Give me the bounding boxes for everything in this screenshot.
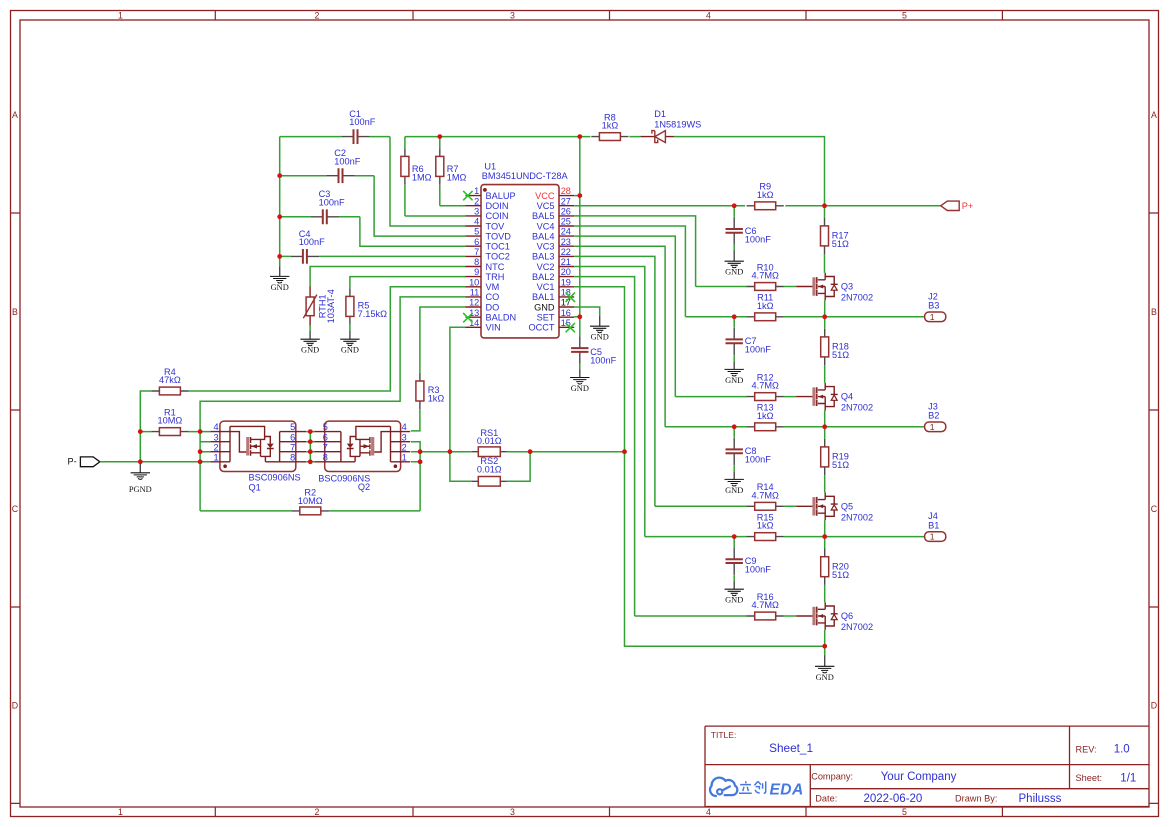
resistor R3 xyxy=(416,373,424,410)
svg-text:2: 2 xyxy=(213,442,218,452)
svg-text:OCCT: OCCT xyxy=(528,323,554,333)
wire: VCC top rail xyxy=(405,137,825,206)
junction xyxy=(198,459,203,464)
svg-text:7: 7 xyxy=(323,442,328,452)
svg-text:5: 5 xyxy=(474,227,479,237)
svg-text:1: 1 xyxy=(118,807,123,817)
svg-text:47kΩ: 47kΩ xyxy=(159,375,181,385)
svg-text:P+: P+ xyxy=(962,201,974,211)
svg-text:2: 2 xyxy=(315,807,320,817)
resistor R5 xyxy=(346,288,354,324)
svg-text:2N7002: 2N7002 xyxy=(841,622,873,632)
svg-text:VC3: VC3 xyxy=(537,242,555,252)
svg-text:6: 6 xyxy=(290,432,295,442)
svg-text:1: 1 xyxy=(213,452,218,462)
transistor Q1 BSC0906NS xyxy=(210,421,306,471)
shunt resistor RS2 xyxy=(472,477,507,487)
resistor R10 xyxy=(747,283,784,291)
svg-text:8: 8 xyxy=(474,257,479,267)
wire: pin 24 fanout xyxy=(574,236,675,397)
svg-text:51Ω: 51Ω xyxy=(832,570,849,580)
svg-text:13: 13 xyxy=(469,308,479,318)
junction xyxy=(198,449,203,454)
wire: Q3 source to J2 row xyxy=(824,300,826,316)
transistor Q5 2N7002 xyxy=(796,493,838,521)
svg-text:4.7MΩ: 4.7MΩ xyxy=(752,381,779,391)
svg-text:PGND: PGND xyxy=(129,485,152,494)
svg-text:3: 3 xyxy=(510,807,515,817)
svg-text:A: A xyxy=(12,110,18,120)
wire: pin 21 fanout xyxy=(574,267,645,537)
svg-text:Q3: Q3 xyxy=(841,282,853,292)
resistor R7 xyxy=(436,137,444,206)
junction xyxy=(138,429,143,434)
svg-text:8: 8 xyxy=(323,452,328,462)
svg-text:7: 7 xyxy=(290,442,295,452)
svg-text:TITLE:: TITLE: xyxy=(711,730,737,740)
junction xyxy=(528,449,533,454)
ground PGND xyxy=(129,462,152,494)
svg-text:C: C xyxy=(1151,504,1158,514)
resistor R20 xyxy=(821,537,829,603)
wire: VM pin 10 to R4 xyxy=(189,287,466,391)
capacitor C5 xyxy=(571,317,588,370)
wire: TRH pin 9 to R5 xyxy=(350,277,466,289)
svg-text:1kΩ: 1kΩ xyxy=(428,394,445,404)
svg-text:1kΩ: 1kΩ xyxy=(757,301,774,311)
junction xyxy=(732,534,737,539)
svg-text:26: 26 xyxy=(561,207,571,217)
svg-text:D1: D1 xyxy=(654,109,666,119)
svg-text:27: 27 xyxy=(561,196,571,206)
svg-text:100nF: 100nF xyxy=(349,117,375,127)
wire: gate node vertical xyxy=(199,432,201,511)
wire: VC1 pin 19 fanout xyxy=(574,287,825,646)
wire: Q6 source to GND row xyxy=(824,630,826,646)
svg-text:GND: GND xyxy=(725,486,743,495)
wire: pin 20 fanout xyxy=(574,277,634,616)
no-connect pin 13 xyxy=(463,313,472,322)
junction xyxy=(308,429,313,434)
svg-text:5: 5 xyxy=(290,422,295,432)
resistor R1 xyxy=(140,428,200,436)
svg-text:19: 19 xyxy=(561,277,571,287)
svg-text:VC4: VC4 xyxy=(537,221,555,231)
wire: row J3 xyxy=(665,426,925,428)
svg-text:1: 1 xyxy=(402,452,407,462)
svg-text:3: 3 xyxy=(474,207,479,217)
wire: gate row Q4 xyxy=(675,396,796,398)
svg-text:SET: SET xyxy=(537,313,555,323)
svg-text:51Ω: 51Ω xyxy=(832,350,849,360)
ground GND bottom xyxy=(815,646,834,682)
junction xyxy=(198,429,203,434)
resistor R16 xyxy=(747,612,784,620)
resistor R15 xyxy=(747,533,784,541)
svg-text:A: A xyxy=(1151,110,1157,120)
junction xyxy=(622,449,627,454)
svg-text:TOVD: TOVD xyxy=(486,231,512,241)
svg-text:VM: VM xyxy=(486,282,500,292)
svg-text:1MΩ: 1MΩ xyxy=(447,172,467,182)
svg-text:20: 20 xyxy=(561,267,571,277)
svg-text:22: 22 xyxy=(561,247,571,257)
wire: node to Q1 pins xyxy=(200,432,210,452)
wire: P- row xyxy=(100,461,210,463)
Q1 pin numbers xyxy=(213,422,295,462)
svg-text:2N7002: 2N7002 xyxy=(841,403,873,413)
Q2 pin numbers xyxy=(323,422,407,462)
svg-text:EDA: EDA xyxy=(770,781,804,798)
svg-text:Q5: Q5 xyxy=(841,501,853,511)
svg-text:BAL1: BAL1 xyxy=(532,292,554,302)
EasyEDA logo xyxy=(710,778,804,799)
wire: CO pin 11 to gate node xyxy=(200,297,465,432)
transistor Q4 2N7002 xyxy=(796,383,838,411)
svg-text:COIN: COIN xyxy=(486,211,509,221)
svg-text:1: 1 xyxy=(474,186,479,196)
svg-text:1kΩ: 1kΩ xyxy=(757,521,774,531)
svg-text:TRH: TRH xyxy=(486,272,505,282)
svg-text:25: 25 xyxy=(561,217,571,227)
svg-text:2: 2 xyxy=(402,442,407,452)
resistor R19 xyxy=(821,427,829,493)
svg-text:100nF: 100nF xyxy=(745,565,771,575)
svg-text:24: 24 xyxy=(561,227,571,237)
shunt resistor RS1 xyxy=(472,447,507,457)
ground GND under C5 xyxy=(570,370,589,394)
svg-text:C: C xyxy=(12,504,19,514)
ground GND under C6 xyxy=(725,251,744,277)
U1 pin numbers right xyxy=(561,186,571,328)
wire: Q2 source bus xyxy=(411,442,420,511)
wire: drain bus between Q1 and Q2 xyxy=(306,432,314,462)
svg-text:100nF: 100nF xyxy=(745,234,771,244)
capacitor C6 xyxy=(726,206,743,251)
junction xyxy=(732,203,737,208)
svg-text:REV:: REV: xyxy=(1076,744,1097,754)
svg-text:10MΩ: 10MΩ xyxy=(298,496,323,506)
svg-text:4: 4 xyxy=(706,11,711,21)
wire: gate row Q5 xyxy=(655,505,796,507)
wire: C3 to TOC1 pin 6 xyxy=(360,217,466,246)
capacitor C4 xyxy=(280,249,466,264)
wire: R3 to Q2 gate xyxy=(411,409,420,431)
wire: VIN pin 14 down xyxy=(450,327,466,451)
wire: NTC pin 8 to RTH1 xyxy=(310,267,465,287)
resistor R13 xyxy=(747,423,784,431)
wire: gate row Q3 xyxy=(696,286,797,288)
svg-text:BAL5: BAL5 xyxy=(532,211,554,221)
svg-text:DOIN: DOIN xyxy=(486,201,509,211)
no-connect pin 1 xyxy=(463,191,472,200)
junction xyxy=(277,254,282,259)
svg-text:Your Company: Your Company xyxy=(881,771,957,783)
wire: pin 26 fanout xyxy=(574,216,695,287)
svg-text:1kΩ: 1kΩ xyxy=(602,121,619,131)
wire: R6 to COIN pin 3 xyxy=(405,215,466,217)
resistor R12 xyxy=(747,393,784,401)
no-connect pin 18 xyxy=(566,293,575,302)
wire: VCC vertical xyxy=(579,137,581,317)
junction xyxy=(308,459,313,464)
svg-text:BAL2: BAL2 xyxy=(532,272,554,282)
svg-text:1: 1 xyxy=(118,11,123,21)
wire: pin 23 fanout xyxy=(574,246,665,427)
capacitor C9 xyxy=(726,537,743,582)
U1 pin names right xyxy=(528,191,554,333)
capacitor C7 xyxy=(726,317,743,362)
wire: C2 to TOVD pin 5 xyxy=(374,176,465,236)
svg-text:Q4: Q4 xyxy=(841,392,853,402)
junction xyxy=(822,203,827,208)
svg-text:4: 4 xyxy=(402,422,407,432)
svg-text:2: 2 xyxy=(315,11,320,21)
svg-text:0.01Ω: 0.01Ω xyxy=(477,464,502,474)
svg-text:4: 4 xyxy=(706,807,711,817)
wire: R7 to DOIN pin 2 xyxy=(440,205,466,207)
svg-text:5: 5 xyxy=(323,422,328,432)
svg-text:5: 5 xyxy=(902,11,907,21)
svg-text:2N7002: 2N7002 xyxy=(841,293,873,303)
svg-text:2: 2 xyxy=(474,196,479,206)
svg-text:GND: GND xyxy=(534,302,555,312)
svg-text:BALUP: BALUP xyxy=(486,191,516,201)
ground GND pin 17 xyxy=(590,316,609,342)
svg-text:B2: B2 xyxy=(928,411,939,421)
svg-text:4.7MΩ: 4.7MΩ xyxy=(752,490,779,500)
svg-text:BAL3: BAL3 xyxy=(532,252,554,262)
svg-text:VIN: VIN xyxy=(486,323,501,333)
U1 pin names left xyxy=(486,191,517,333)
resistor R8 xyxy=(591,133,628,141)
svg-text:51Ω: 51Ω xyxy=(832,239,849,249)
junction xyxy=(277,214,282,219)
svg-text:9: 9 xyxy=(474,267,479,277)
junction xyxy=(577,193,582,198)
resistor R4 xyxy=(151,387,188,395)
wire: row J4 xyxy=(645,536,925,538)
junction xyxy=(577,134,582,139)
svg-text:GND: GND xyxy=(271,283,289,292)
svg-text:21: 21 xyxy=(561,257,571,267)
wire: gate row Q6 xyxy=(635,615,797,617)
svg-text:GND: GND xyxy=(725,376,743,385)
capacitor C2 xyxy=(280,168,374,183)
diode D1 1N5819WS xyxy=(641,131,674,143)
svg-text:6: 6 xyxy=(323,432,328,442)
svg-text:100nF: 100nF xyxy=(745,345,771,355)
ground GND under RTH1 xyxy=(300,326,319,355)
resistor R11 xyxy=(747,313,784,321)
svg-text:Company:: Company: xyxy=(811,772,853,782)
svg-text:51Ω: 51Ω xyxy=(832,460,849,470)
svg-text:GND: GND xyxy=(341,346,359,355)
thermistor RTH1 xyxy=(303,287,317,326)
svg-text:VC2: VC2 xyxy=(537,262,555,272)
svg-text:Sheet:: Sheet: xyxy=(1076,773,1103,783)
wire: R4 left to P- rail xyxy=(140,391,151,462)
svg-text:2022-06-20: 2022-06-20 xyxy=(864,793,923,805)
wire: Q4 source to J3 row xyxy=(824,411,826,427)
svg-text:GND: GND xyxy=(816,673,834,682)
svg-text:4: 4 xyxy=(213,422,218,432)
junction xyxy=(277,173,282,178)
svg-text:GND: GND xyxy=(591,333,609,342)
svg-text:B: B xyxy=(12,307,18,317)
junction xyxy=(822,644,827,649)
svg-text:2N7002: 2N7002 xyxy=(841,512,873,522)
svg-text:VC5: VC5 xyxy=(537,201,555,211)
connector J2 xyxy=(925,312,946,322)
svg-text:BAL4: BAL4 xyxy=(532,231,554,241)
svg-text:1/1: 1/1 xyxy=(1120,772,1136,784)
svg-text:10: 10 xyxy=(469,277,479,287)
svg-text:Date:: Date: xyxy=(815,793,837,803)
svg-text:B1: B1 xyxy=(928,521,939,531)
svg-text:DO: DO xyxy=(486,302,500,312)
ground GND under C7 xyxy=(725,362,744,385)
power flag P- xyxy=(68,457,100,467)
svg-text:8: 8 xyxy=(290,452,295,462)
transistor Q3 2N7002 xyxy=(796,273,838,301)
connector J4 xyxy=(925,532,946,542)
junction xyxy=(577,314,582,319)
svg-text:D: D xyxy=(12,701,18,711)
wire: RS row xyxy=(420,451,624,453)
junction xyxy=(448,449,453,454)
capacitor C8 xyxy=(726,427,743,472)
svg-text:TOV: TOV xyxy=(486,221,506,231)
ground GND under C8 xyxy=(725,472,744,495)
wire: Q5 source to J4 row xyxy=(824,520,826,536)
ground GND under C9 xyxy=(725,582,744,605)
svg-text:Q6: Q6 xyxy=(841,611,853,621)
svg-text:TOC2: TOC2 xyxy=(486,252,510,262)
svg-text:1N5819WS: 1N5819WS xyxy=(654,119,701,129)
svg-text:GND: GND xyxy=(725,268,743,277)
svg-text:BM3451UNDC-T28A: BM3451UNDC-T28A xyxy=(482,171,569,181)
svg-text:Philusss: Philusss xyxy=(1019,793,1062,805)
wire: DO pin 12 to R3 xyxy=(420,307,466,373)
wire: VC5 to P+ row xyxy=(574,205,941,207)
junction xyxy=(138,459,143,464)
wire: SET pin 16 stub xyxy=(574,316,580,318)
junction xyxy=(308,439,313,444)
wire: row J2 xyxy=(685,316,924,318)
svg-text:100nF: 100nF xyxy=(334,156,360,166)
wire: C1 to TOV pin 4 xyxy=(390,137,466,226)
svg-text:3: 3 xyxy=(402,432,407,442)
title block xyxy=(705,726,1149,806)
svg-text:100nF: 100nF xyxy=(745,455,771,465)
svg-text:P-: P- xyxy=(68,457,77,467)
svg-text:5: 5 xyxy=(902,807,907,817)
svg-text:3: 3 xyxy=(510,11,515,21)
junction xyxy=(822,314,827,319)
connector J3 xyxy=(925,422,946,432)
svg-text:7: 7 xyxy=(474,247,479,257)
svg-text:11: 11 xyxy=(470,288,480,298)
svg-text:Drawn By:: Drawn By: xyxy=(955,793,997,803)
junction xyxy=(418,459,423,464)
svg-text:10MΩ: 10MΩ xyxy=(158,416,183,426)
svg-text:VCC: VCC xyxy=(535,191,555,201)
svg-text:0.01Ω: 0.01Ω xyxy=(477,436,502,446)
svg-text:BSC0906NS: BSC0906NS xyxy=(249,473,301,483)
junction xyxy=(822,424,827,429)
svg-text:1: 1 xyxy=(930,312,935,322)
power flag P+ xyxy=(941,201,974,211)
svg-text:3: 3 xyxy=(213,432,218,442)
U1 pin numbers left xyxy=(469,186,479,328)
capacitor C1 xyxy=(280,129,390,144)
wire: pin 22 fanout xyxy=(574,256,655,506)
svg-text:GND: GND xyxy=(301,346,319,355)
svg-text:BALDN: BALDN xyxy=(486,313,517,323)
junction xyxy=(418,449,423,454)
svg-text:NTC: NTC xyxy=(486,262,505,272)
svg-text:103AT-4: 103AT-4 xyxy=(326,289,336,323)
ground GND under R5 xyxy=(340,325,359,355)
junction xyxy=(732,424,737,429)
junction xyxy=(437,134,442,139)
svg-text:1kΩ: 1kΩ xyxy=(757,190,774,200)
resistor R18 xyxy=(821,317,829,383)
svg-text:B: B xyxy=(1151,307,1157,317)
resistor R14 xyxy=(747,502,784,510)
svg-text:VC1: VC1 xyxy=(537,282,555,292)
svg-text:U1: U1 xyxy=(484,162,496,172)
svg-text:28: 28 xyxy=(561,186,571,196)
wire: GND pin 17 xyxy=(574,307,600,316)
svg-text:1kΩ: 1kΩ xyxy=(757,411,774,421)
svg-text:4.7MΩ: 4.7MΩ xyxy=(752,271,779,281)
wire: pin 28 stub xyxy=(574,195,580,197)
ground GND under ladder xyxy=(270,256,289,292)
capacitor C3 xyxy=(280,209,360,224)
svg-text:Q1: Q1 xyxy=(249,483,261,493)
svg-text:100nF: 100nF xyxy=(590,355,616,365)
svg-text:100nF: 100nF xyxy=(319,197,345,207)
wire: RS2 parallel branch xyxy=(450,452,530,482)
svg-text:D: D xyxy=(1151,701,1157,711)
svg-text:B3: B3 xyxy=(928,301,939,311)
svg-text:CO: CO xyxy=(486,292,500,302)
svg-text:23: 23 xyxy=(561,237,571,247)
svg-text:TOC1: TOC1 xyxy=(486,242,510,252)
no-connect pin 15 xyxy=(566,323,575,332)
op-amp U1 BM3451UNDC-T28A xyxy=(466,185,575,338)
svg-text:Sheet_1: Sheet_1 xyxy=(769,741,813,755)
junction xyxy=(822,534,827,539)
svg-text:6: 6 xyxy=(474,237,479,247)
resistor R2 xyxy=(200,507,420,515)
svg-text:100nF: 100nF xyxy=(299,237,325,247)
svg-text:1MΩ: 1MΩ xyxy=(412,172,432,182)
svg-text:1: 1 xyxy=(930,422,935,432)
transistor Q6 2N7002 xyxy=(796,602,838,630)
junction xyxy=(732,314,737,319)
wire: pin 25 fanout xyxy=(574,226,685,317)
svg-text:12: 12 xyxy=(469,298,479,308)
svg-text:4.7MΩ: 4.7MΩ xyxy=(752,600,779,610)
resistor R6 xyxy=(401,137,409,216)
resistor R9 xyxy=(747,202,784,210)
svg-text:Q2: Q2 xyxy=(358,482,370,492)
transistor Q2 BSC0906NS xyxy=(314,421,410,471)
svg-text:7.15kΩ: 7.15kΩ xyxy=(358,309,387,319)
